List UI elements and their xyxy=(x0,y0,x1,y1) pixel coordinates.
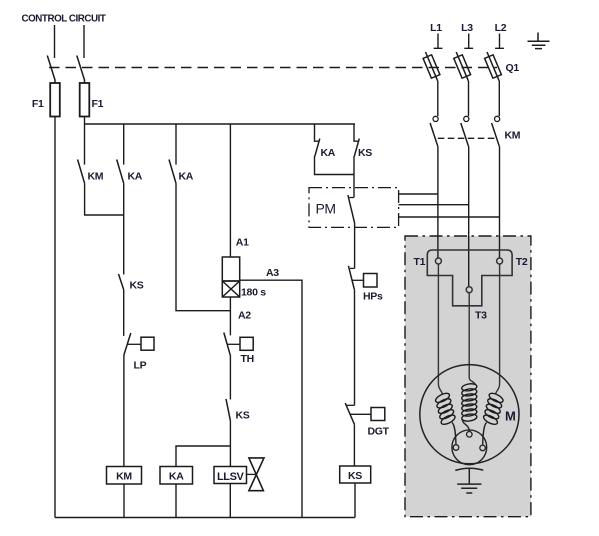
terminal T1 xyxy=(435,258,441,264)
svg-text:T3: T3 xyxy=(475,310,487,322)
svg-text:180 s: 180 s xyxy=(241,286,266,298)
svg-text:KA: KA xyxy=(128,171,143,183)
rotor terminal top xyxy=(467,432,473,438)
solenoid valve symbol xyxy=(247,473,257,475)
svg-text:TH: TH xyxy=(241,353,254,365)
pressure switch LP xyxy=(124,333,131,355)
svg-text:KS: KS xyxy=(358,147,372,159)
svg-text:KM: KM xyxy=(505,129,521,141)
wire: KA branch 2 to node A2 xyxy=(176,183,230,310)
terminal T2 xyxy=(497,258,503,264)
disconnect switch blade (control pole 2) xyxy=(77,56,85,84)
motor winding left xyxy=(434,391,456,426)
wire xyxy=(229,484,231,518)
svg-text:L1: L1 xyxy=(430,22,442,34)
wire: left rail xyxy=(54,117,56,518)
rotor terminal right xyxy=(480,445,486,451)
rotor circle xyxy=(452,430,487,465)
contactor KM linkage xyxy=(438,137,497,139)
pressure switch HPs xyxy=(350,267,355,269)
svg-text:F1: F1 xyxy=(32,98,44,110)
svg-text:KS: KS xyxy=(348,470,362,482)
wire xyxy=(123,355,125,467)
wire: T2 lead to winding xyxy=(496,264,500,394)
svg-text:HPs: HPs xyxy=(363,291,383,303)
svg-text:F1: F1 xyxy=(92,98,104,110)
contactor KM pole 3 xyxy=(495,116,500,121)
svg-text:KA: KA xyxy=(179,171,194,183)
wire: tap to coil KA xyxy=(176,446,230,467)
contact KS (NO, middle) xyxy=(226,399,230,421)
contact KS (NO, PM branch) xyxy=(354,124,358,141)
svg-text:KM: KM xyxy=(88,171,104,183)
svg-text:KS: KS xyxy=(130,280,144,292)
svg-text:L2: L2 xyxy=(495,22,507,34)
earth ground (top right) xyxy=(528,33,550,49)
wire: phase 2 down to T3 xyxy=(468,146,470,286)
svg-text:LLSV: LLSV xyxy=(217,471,244,483)
wire xyxy=(353,156,355,198)
svg-text:T2: T2 xyxy=(516,256,528,268)
motor winding middle xyxy=(461,383,477,422)
motor frame ground xyxy=(455,468,483,470)
wire: PM tap 1 xyxy=(399,193,438,195)
wire xyxy=(229,421,231,467)
wire: PM tap 3 xyxy=(399,216,500,218)
thermal switch TH xyxy=(224,333,231,356)
wire xyxy=(354,483,356,518)
wire: branch A1 xyxy=(229,124,231,257)
wire: control feed 1 top xyxy=(54,25,56,58)
mechanical linkage dashed line xyxy=(49,67,497,69)
svg-text:CONTROL CIRCUIT: CONTROL CIRCUIT xyxy=(22,13,106,24)
wire xyxy=(123,484,125,518)
svg-text:A1: A1 xyxy=(236,236,249,248)
wire xyxy=(123,290,125,336)
svg-text:M: M xyxy=(505,409,516,424)
fuse F1 (left) xyxy=(50,83,60,117)
wire: control bus xyxy=(85,123,356,125)
fused disconnect Q1 pole 2 xyxy=(456,52,468,81)
motor M circle xyxy=(420,365,519,464)
contact KA (NO, branch 2) xyxy=(175,124,177,165)
contact KA (NO, branch 1) xyxy=(123,124,125,165)
wire: T3 lead to winding xyxy=(469,293,475,385)
contact KM (auxiliary NO) xyxy=(78,160,85,184)
wire: KA aux joins KS line xyxy=(315,156,355,175)
coil KS xyxy=(340,466,371,483)
wire: bottom bus xyxy=(55,517,355,519)
fuse F1 (right) xyxy=(80,83,90,117)
svg-text:Q1: Q1 xyxy=(506,62,520,74)
sensor DGT xyxy=(346,404,354,406)
timer delay element (X box) xyxy=(222,281,239,297)
svg-text:PM: PM xyxy=(316,201,336,217)
contactor KM pole 1 xyxy=(433,116,438,121)
timer body xyxy=(222,257,239,281)
wire xyxy=(354,223,356,268)
fused disconnect Q1 pole 1 xyxy=(426,52,438,81)
phase monitor PM box xyxy=(309,188,399,228)
contact KA (NO, PM branch) xyxy=(315,124,319,141)
contactor KM pole 2 xyxy=(464,116,469,121)
fused disconnect Q1 pole 3 xyxy=(487,52,499,81)
coil KM xyxy=(107,467,142,485)
wire: PM tap 2 xyxy=(399,204,469,206)
wire xyxy=(353,424,355,466)
wire xyxy=(229,356,231,400)
wire: control feed 2 top xyxy=(83,25,85,58)
svg-text:KM: KM xyxy=(116,471,132,483)
wire xyxy=(123,183,125,274)
wire: phase 1 down to T1 xyxy=(437,146,439,258)
svg-text:KA: KA xyxy=(321,147,336,159)
wire: fuse2 down to KM contact xyxy=(84,117,86,165)
svg-text:LP: LP xyxy=(134,360,147,372)
wire: A2 down xyxy=(229,297,231,335)
terminal T3 xyxy=(466,287,472,293)
svg-text:A3: A3 xyxy=(266,267,279,279)
contact KS (NO) xyxy=(119,274,124,290)
motor winding right xyxy=(482,391,504,426)
svg-text:KS: KS xyxy=(236,410,250,422)
svg-text:DGT: DGT xyxy=(368,426,390,438)
wire: branch A3 xyxy=(240,280,302,517)
svg-text:A2: A2 xyxy=(238,310,251,322)
wire: phase 3 down to T2 xyxy=(499,146,501,258)
PM output contact xyxy=(349,197,354,199)
wire: KM contact to KA branch xyxy=(85,183,124,215)
wire: T1 lead to winding xyxy=(438,264,442,394)
motor enclosure (shaded dash-dot box) xyxy=(405,236,531,517)
svg-text:L3: L3 xyxy=(461,22,473,34)
coil LLSV xyxy=(214,467,247,484)
disconnect switch blade (control pole 1) xyxy=(47,56,55,84)
wire xyxy=(354,290,356,406)
motor terminal block xyxy=(427,250,512,306)
svg-text:T1: T1 xyxy=(414,256,426,268)
wire xyxy=(175,484,177,518)
wire: Q1 to KM contactor xyxy=(437,81,439,116)
coil KA xyxy=(160,467,193,485)
rotor terminal left xyxy=(453,445,459,451)
winding to rotor connectors xyxy=(452,423,456,445)
svg-text:KA: KA xyxy=(169,471,184,483)
